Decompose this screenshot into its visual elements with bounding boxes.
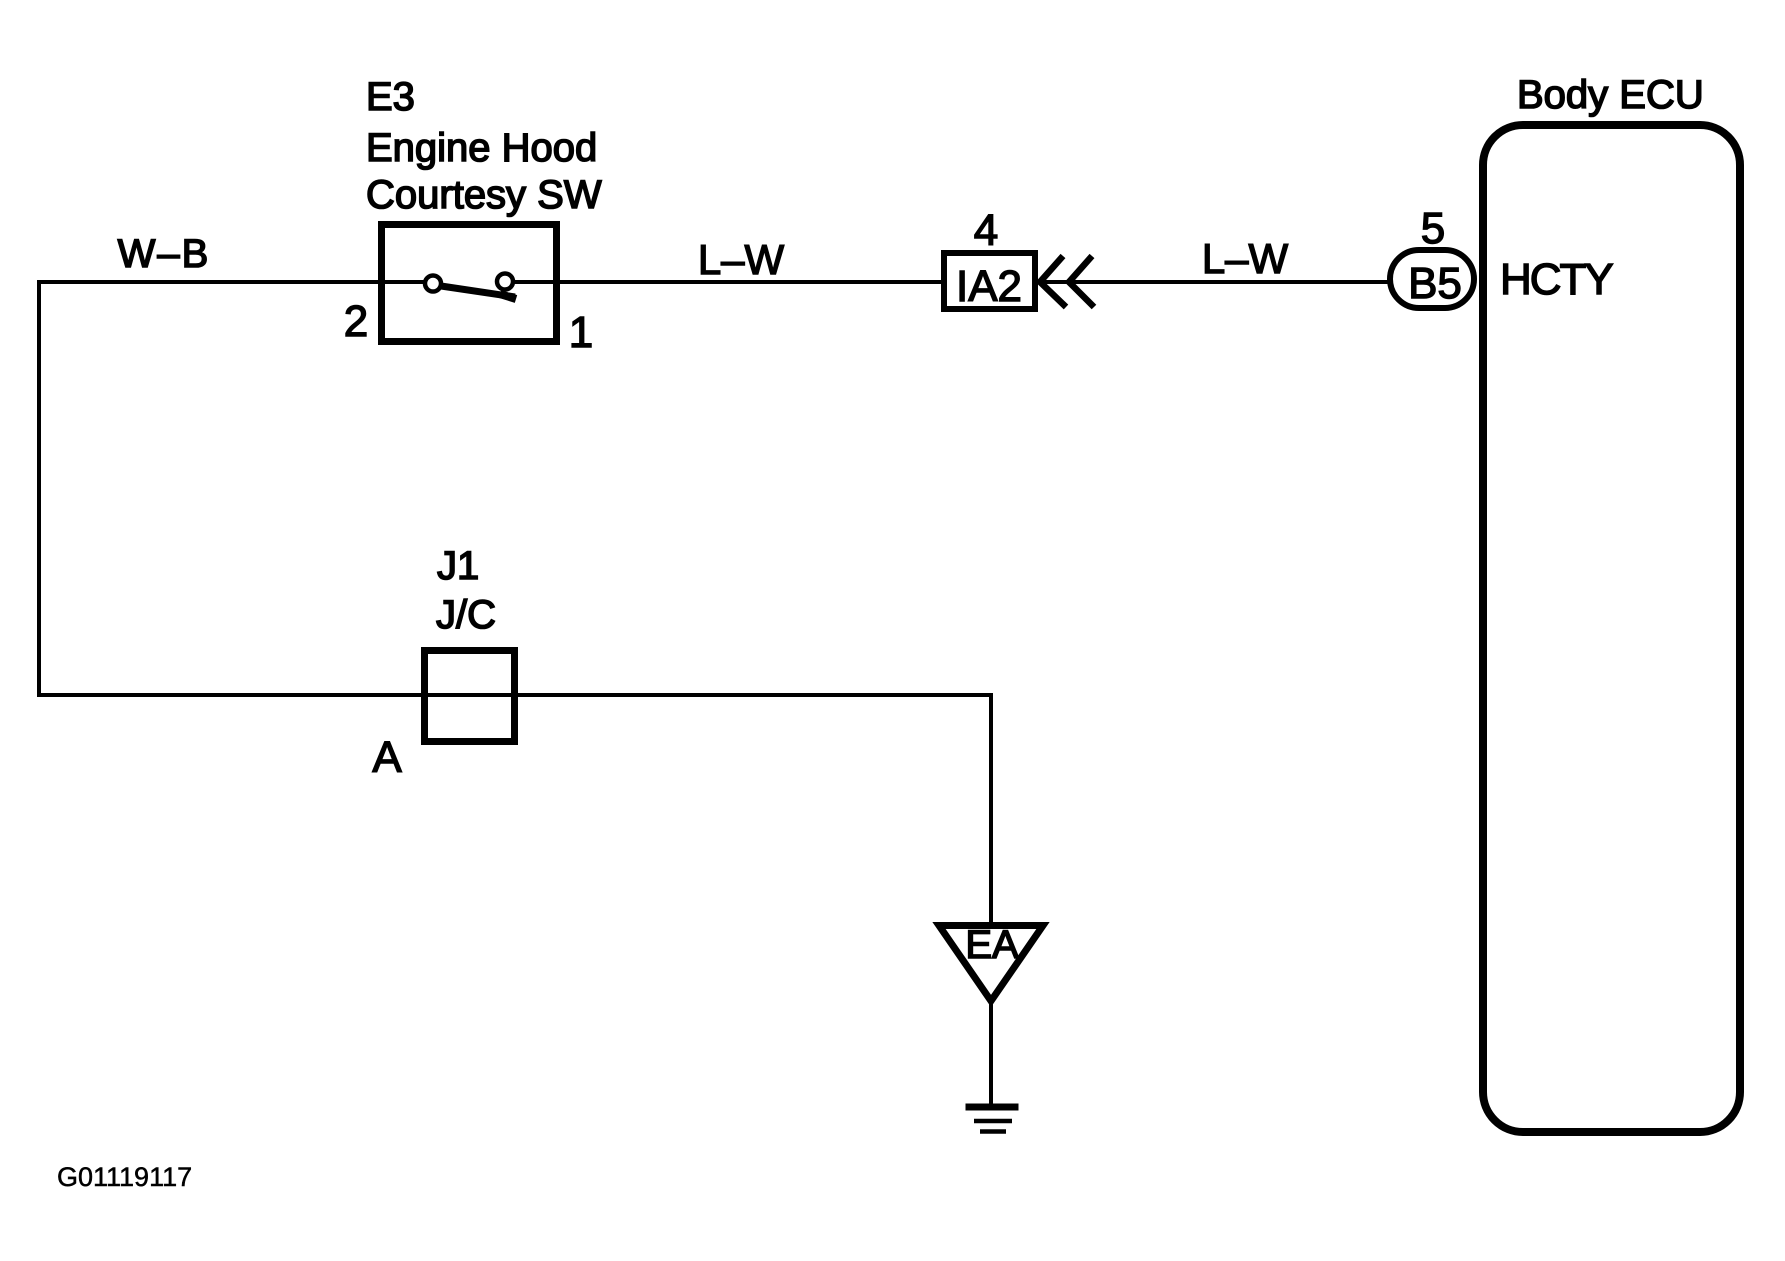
ground symbol: [966, 1104, 1019, 1111]
svg-text:J1: J1: [437, 544, 479, 588]
svg-text:Engine Hood: Engine Hood: [366, 126, 597, 170]
svg-text:Body ECU: Body ECU: [1517, 73, 1704, 117]
svg-text:B5: B5: [1408, 259, 1462, 308]
switch E3 box: [382, 225, 557, 342]
svg-text:5: 5: [1421, 204, 1445, 253]
svg-text:IA2: IA2: [956, 262, 1022, 311]
body ECU box: [1483, 125, 1740, 1132]
svg-text:Courtesy SW: Courtesy SW: [366, 173, 602, 217]
svg-text:2: 2: [344, 297, 368, 346]
svg-text:G01119117: G01119117: [57, 1162, 192, 1192]
switch E3 contact terminal 1: [497, 274, 513, 290]
wire: EA triangle to ground: [989, 1001, 993, 1107]
svg-text:A: A: [372, 733, 402, 782]
svg-text:HCTY: HCTY: [1500, 255, 1613, 304]
svg-text:L–W: L–W: [1202, 235, 1289, 282]
ground EA triangle: [939, 926, 1043, 1002]
splice arrows (double chevron): [1040, 256, 1066, 307]
svg-text:E3: E3: [366, 75, 415, 119]
svg-text:EA: EA: [965, 923, 1019, 967]
switch E3 blade: [441, 286, 515, 297]
junction connector J1 J/C box: [425, 651, 515, 742]
svg-text:4: 4: [974, 206, 998, 255]
wire: main W-B/L-W run, left drop, bottom run to ground drop: [39, 282, 991, 925]
connector B5 oval: [1390, 250, 1474, 308]
wire: switch pin1 to IA2: [513, 280, 941, 284]
svg-text:W–B: W–B: [118, 232, 211, 276]
svg-text:L–W: L–W: [698, 236, 785, 283]
svg-text:1: 1: [569, 308, 593, 357]
svg-text:J/C: J/C: [436, 593, 496, 637]
switch E3 contact terminal 2: [425, 276, 441, 292]
wire: L-W from splice arrows to connector B5: [1040, 280, 1390, 284]
connector IA2 box: [944, 253, 1035, 309]
